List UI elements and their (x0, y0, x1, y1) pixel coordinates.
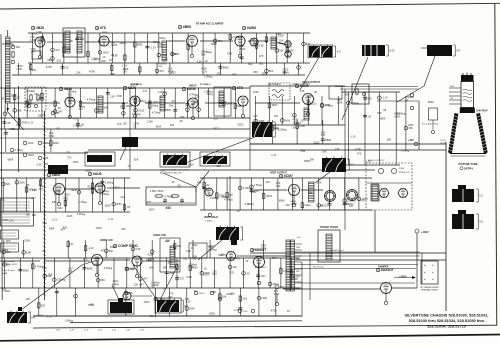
svg-text:47K: 47K (357, 152, 362, 156)
svg-text:3BZ6: 3BZ6 (36, 26, 44, 30)
svg-text:H.V.: H.V. (297, 237, 301, 239)
svg-text:6.8K: 6.8K (227, 52, 233, 56)
svg-text:.001: .001 (87, 184, 93, 188)
svg-text:2.2Meg: 2.2Meg (204, 74, 213, 78)
svg-text:3.3K: 3.3K (192, 255, 198, 259)
svg-text:COMP SYNC: COMP SYNC (118, 244, 139, 248)
svg-text:.05: .05 (56, 127, 60, 131)
svg-text:1Meg: 1Meg (112, 282, 119, 286)
svg-text:270: 270 (79, 107, 84, 111)
svg-text:270: 270 (147, 200, 152, 204)
svg-text:1K: 1K (109, 58, 112, 62)
svg-text:RF TRANSFORMER: RF TRANSFORMER (420, 286, 439, 289)
svg-text:RF ZONE B: RF ZONE B (130, 84, 142, 86)
svg-text:1.5Meg: 1.5Meg (254, 183, 263, 187)
svg-text:470K: 470K (251, 120, 257, 124)
svg-text:+245V: +245V (399, 275, 407, 279)
svg-text:-1.1V: -1.1V (150, 45, 156, 49)
svg-text:.05: .05 (127, 205, 131, 209)
svg-text:680K: 680K (325, 138, 331, 142)
svg-text:680K: 680K (23, 268, 29, 272)
svg-text:1K: 1K (245, 259, 248, 263)
svg-text:BOOST B+: BOOST B+ (313, 266, 325, 268)
svg-text:5-1: 5-1 (479, 194, 483, 198)
svg-text:680K: 680K (53, 141, 59, 145)
svg-text:1K: 1K (2, 198, 5, 202)
svg-text:3.3K: 3.3K (259, 44, 265, 48)
svg-text:100K: 100K (408, 123, 414, 127)
svg-text:6AU8: 6AU8 (300, 84, 309, 88)
svg-text:255V: 255V (209, 311, 215, 315)
svg-text:-1.1V: -1.1V (233, 308, 239, 312)
svg-text:1K: 1K (70, 242, 73, 246)
svg-text:6AU6: 6AU6 (93, 172, 102, 176)
svg-text:560: 560 (62, 167, 67, 171)
svg-text:.05: .05 (405, 99, 409, 103)
svg-text:47K: 47K (42, 266, 47, 270)
svg-text:+40V: +40V (408, 139, 414, 142)
svg-text:4.7Meg: 4.7Meg (324, 104, 333, 108)
svg-text:12K: 12K (76, 71, 81, 75)
svg-text:To A8: To A8 (2, 272, 8, 275)
svg-text:1K: 1K (42, 249, 45, 253)
svg-text:39K: 39K (163, 266, 168, 270)
svg-text:3.3K: 3.3K (197, 60, 203, 64)
svg-text:150V: 150V (93, 262, 99, 266)
svg-text:6BE6: 6BE6 (52, 173, 60, 177)
svg-text:33K: 33K (124, 101, 129, 105)
svg-text:.047: .047 (55, 48, 61, 52)
svg-text:33K: 33K (69, 39, 74, 43)
svg-text:680K: 680K (380, 117, 386, 121)
svg-text:.05: .05 (236, 209, 240, 213)
svg-text:12K: 12K (317, 181, 322, 185)
svg-text:270: 270 (117, 122, 122, 126)
svg-text:3.3K: 3.3K (188, 265, 194, 269)
svg-text:560: 560 (269, 69, 274, 73)
svg-text:.0015: .0015 (66, 214, 73, 218)
svg-text:82K: 82K (161, 169, 166, 173)
svg-text:22K: 22K (168, 260, 173, 264)
svg-text:255V: 255V (144, 300, 150, 304)
svg-text:680K: 680K (129, 267, 135, 271)
svg-text:+: + (432, 270, 434, 274)
svg-text:47K: 47K (159, 69, 164, 73)
svg-text:-1.1V: -1.1V (88, 246, 94, 250)
svg-text:22K: 22K (101, 59, 106, 63)
svg-text:150V: 150V (149, 207, 155, 211)
svg-text:DAMPER: DAMPER (378, 266, 389, 269)
svg-text:100K: 100K (37, 38, 43, 42)
svg-text:5-6: 5-6 (31, 316, 35, 320)
svg-text:1K: 1K (133, 124, 136, 128)
svg-text:82K: 82K (6, 239, 11, 243)
svg-text:+: + (424, 277, 426, 281)
svg-text:120K: 120K (299, 124, 305, 128)
svg-text:.0015: .0015 (152, 100, 159, 104)
svg-text:.05: .05 (177, 184, 181, 188)
svg-text:33K: 33K (322, 150, 327, 154)
svg-text:RF AMP AGC CLAMPER: RF AMP AGC CLAMPER (196, 23, 224, 26)
svg-text:4.7Meg: 4.7Meg (87, 98, 96, 102)
svg-text:IN64: IN64 (285, 118, 291, 122)
svg-text:HORIZ OSC: HORIZ OSC (153, 234, 167, 237)
svg-text:560: 560 (43, 221, 48, 225)
svg-text:33K: 33K (170, 123, 175, 127)
svg-text:10K: 10K (26, 297, 31, 301)
svg-text:120K: 120K (355, 147, 361, 151)
svg-text:255V: 255V (262, 72, 268, 76)
svg-text:6.8K: 6.8K (49, 134, 55, 138)
svg-text:270: 270 (217, 71, 222, 75)
svg-text:5-3: 5-3 (337, 50, 341, 54)
svg-text:255V: 255V (99, 184, 105, 188)
svg-text:.0022: .0022 (237, 123, 244, 127)
svg-text:47K: 47K (72, 117, 77, 121)
svg-text:47K: 47K (259, 54, 264, 58)
svg-text:82K: 82K (109, 249, 114, 253)
svg-text:1Meg: 1Meg (150, 314, 157, 318)
svg-text:150V: 150V (10, 94, 16, 98)
svg-text:150V: 150V (226, 292, 232, 296)
svg-text:1Meg: 1Meg (159, 36, 166, 40)
svg-text:.05: .05 (7, 121, 11, 125)
svg-text:270: 270 (143, 89, 148, 93)
svg-text:3.3K: 3.3K (154, 283, 160, 287)
svg-text:1Meg: 1Meg (11, 127, 18, 131)
svg-text:.001: .001 (311, 101, 317, 105)
svg-text:12K: 12K (266, 180, 271, 184)
svg-text:-1.1V: -1.1V (46, 315, 52, 319)
svg-text:24TP4: 24TP4 (440, 143, 447, 145)
svg-text:47K: 47K (90, 302, 95, 306)
svg-text:-1.1V: -1.1V (121, 64, 127, 68)
svg-text:TO (9): TO (9) (440, 140, 446, 142)
svg-text:270: 270 (123, 70, 128, 74)
svg-text:Focus Adjust Plug: Focus Adjust Plug (422, 123, 438, 126)
svg-text:100K: 100K (343, 202, 349, 206)
svg-text:IN64: IN64 (38, 314, 44, 318)
svg-text:10K: 10K (279, 39, 284, 43)
svg-text:.001: .001 (242, 297, 248, 301)
svg-text:82K: 82K (48, 273, 53, 277)
svg-text:4.7Meg: 4.7Meg (165, 195, 174, 199)
svg-text:-1.1V: -1.1V (365, 159, 371, 163)
svg-text:IN64: IN64 (156, 124, 162, 128)
svg-text:B26.8-9+L SP B: B26.8-9+L SP B (2, 264, 17, 266)
svg-text:IN64: IN64 (57, 206, 63, 210)
svg-text:120K: 120K (253, 90, 259, 94)
svg-text:120K: 120K (36, 30, 42, 34)
svg-text:470K: 470K (271, 309, 277, 313)
svg-text:2ND IF: 2ND IF (189, 85, 197, 88)
svg-text:.0022: .0022 (169, 70, 176, 74)
svg-text:560: 560 (121, 227, 126, 231)
svg-text:4.7Meg: 4.7Meg (218, 100, 227, 104)
svg-text:150V: 150V (278, 34, 284, 38)
svg-text:4.7Meg: 4.7Meg (78, 200, 87, 204)
svg-text:22K: 22K (44, 162, 49, 166)
svg-text:ION TRAP: ION TRAP (477, 110, 488, 113)
svg-text:39K: 39K (387, 138, 392, 142)
svg-text:5-7: 5-7 (184, 304, 188, 308)
svg-text:47K: 47K (360, 198, 365, 202)
svg-text:39K: 39K (180, 115, 185, 119)
svg-text:10K: 10K (292, 126, 297, 130)
svg-text:120K: 120K (147, 120, 153, 124)
svg-text:3.3K: 3.3K (318, 204, 324, 208)
svg-text:680K: 680K (85, 169, 91, 173)
svg-text:270: 270 (66, 150, 71, 154)
svg-text:-1.1V: -1.1V (27, 120, 33, 124)
svg-text:1K: 1K (191, 246, 194, 250)
svg-text:6T8: 6T8 (237, 86, 243, 90)
svg-text:150V: 150V (97, 154, 103, 158)
svg-text:47K: 47K (39, 187, 44, 191)
svg-text:1Meg: 1Meg (2, 248, 9, 252)
svg-text:.05: .05 (383, 108, 387, 112)
svg-text:150V: 150V (102, 31, 108, 35)
svg-text:100K: 100K (227, 102, 233, 106)
svg-text:1.5Meg: 1.5Meg (65, 318, 74, 322)
svg-text:+: + (424, 263, 426, 267)
svg-text:82K: 82K (368, 97, 373, 101)
svg-text:39K: 39K (308, 191, 313, 195)
svg-text:1.5Meg: 1.5Meg (205, 221, 213, 223)
svg-text:.05: .05 (65, 66, 69, 70)
svg-text:.047: .047 (287, 42, 293, 46)
svg-text:120K: 120K (2, 218, 8, 222)
svg-text:12K: 12K (274, 114, 279, 118)
svg-text:TERMINAL BOARD: TERMINAL BOARD (421, 289, 439, 292)
svg-text:.05: .05 (56, 111, 60, 115)
svg-text:2.2Meg: 2.2Meg (210, 196, 219, 200)
svg-text:1.5Meg: 1.5Meg (105, 180, 114, 184)
svg-text:255V: 255V (240, 47, 246, 51)
svg-text:1Meg: 1Meg (304, 203, 311, 207)
svg-text:6.8K: 6.8K (113, 54, 119, 58)
svg-text:3.3K: 3.3K (245, 202, 251, 206)
svg-text:1Meg: 1Meg (119, 41, 126, 45)
svg-text:39K: 39K (310, 158, 315, 162)
svg-text:.047: .047 (252, 247, 258, 251)
svg-text:1Meg: 1Meg (152, 104, 159, 108)
svg-text:2.2Meg: 2.2Meg (278, 128, 287, 132)
svg-text:+140V: +140V (421, 230, 429, 234)
svg-text:VIDEO OUTPUT: VIDEO OUTPUT (302, 81, 320, 84)
svg-text:.0022: .0022 (4, 289, 11, 293)
svg-text:4.7Meg: 4.7Meg (231, 256, 240, 260)
svg-text:470K: 470K (89, 70, 95, 74)
svg-text:1K: 1K (194, 100, 197, 104)
svg-text:33K: 33K (253, 70, 258, 74)
svg-text:+: + (432, 263, 434, 267)
svg-text:.05: .05 (26, 183, 30, 187)
svg-text:39K: 39K (32, 213, 37, 217)
svg-text:INTERLOCK: INTERLOCK (399, 172, 411, 174)
svg-text:VERT OUTPUT: VERT OUTPUT (270, 172, 287, 175)
svg-text:470K: 470K (307, 94, 313, 98)
svg-text:82K: 82K (283, 70, 288, 74)
svg-text:.0022: .0022 (213, 127, 220, 131)
svg-text:560: 560 (101, 278, 106, 282)
svg-text:47K: 47K (197, 181, 202, 185)
svg-text:.047: .047 (31, 196, 37, 200)
svg-text:4.7Meg: 4.7Meg (104, 266, 113, 270)
svg-text:120K: 120K (28, 141, 34, 145)
svg-text:Tuner IF input: Tuner IF input (2, 269, 15, 272)
svg-text:470K: 470K (46, 65, 52, 69)
svg-text:SPKR: SPKR (199, 293, 205, 295)
svg-text:-1.1V: -1.1V (54, 166, 60, 170)
svg-text:560: 560 (248, 62, 253, 66)
svg-text:IF ZONE C: IF ZONE C (200, 84, 211, 86)
svg-text:100K: 100K (73, 160, 79, 164)
svg-text:680K: 680K (279, 199, 285, 203)
svg-text:4.7Meg: 4.7Meg (152, 111, 161, 115)
svg-text:255V: 255V (116, 202, 122, 206)
svg-text:2.2Meg: 2.2Meg (204, 89, 213, 93)
svg-text:IN64: IN64 (218, 253, 224, 257)
svg-text:100K: 100K (38, 114, 44, 118)
svg-text:1K: 1K (102, 55, 105, 59)
svg-text:.0022: .0022 (313, 140, 320, 144)
svg-text:1.5Meg: 1.5Meg (405, 95, 414, 99)
svg-text:6AX4GT: 6AX4GT (381, 268, 394, 272)
svg-text:SILVERTONE CHASSIS 528.51030,: SILVERTONE CHASSIS 528.51030, 528.51031, (405, 312, 489, 317)
svg-text:1.5Meg: 1.5Meg (73, 123, 82, 127)
svg-text:CORE: CORE (157, 66, 163, 68)
svg-text:6.8K: 6.8K (166, 206, 172, 210)
svg-text:39K: 39K (149, 266, 154, 270)
svg-text:150V: 150V (208, 244, 214, 248)
svg-text:3.3K: 3.3K (37, 163, 43, 167)
svg-text:-1.1V: -1.1V (201, 69, 207, 73)
svg-text:39K: 39K (169, 104, 174, 108)
svg-text:150V: 150V (24, 238, 30, 242)
svg-text:39K: 39K (17, 108, 22, 112)
svg-text:.05: .05 (179, 119, 183, 123)
svg-text:.0015: .0015 (102, 50, 109, 54)
svg-text:.0022: .0022 (28, 153, 35, 157)
svg-text:-1.1V: -1.1V (350, 135, 356, 139)
svg-text:270: 270 (83, 257, 88, 261)
svg-text:6.8K: 6.8K (211, 290, 217, 294)
svg-text:680K: 680K (147, 259, 153, 263)
svg-text:1.5Meg: 1.5Meg (138, 99, 147, 103)
svg-text:.05: .05 (0, 96, 4, 100)
svg-text:270: 270 (321, 133, 326, 137)
svg-text:2.2Meg: 2.2Meg (132, 112, 141, 116)
svg-text:82K: 82K (32, 68, 37, 72)
svg-text:47K: 47K (175, 302, 180, 306)
svg-text:39K: 39K (47, 58, 52, 62)
svg-text:1K: 1K (127, 164, 130, 168)
svg-text:.05: .05 (171, 99, 175, 103)
svg-text:528.51030 thru 528.51034, 528.: 528.51030 thru 528.51034, 528.51050 thru (409, 318, 485, 323)
svg-text:10K: 10K (165, 239, 170, 243)
svg-text:255V: 255V (203, 272, 209, 276)
svg-text:.047: .047 (120, 195, 126, 199)
svg-text:528.51054, 528.51710: 528.51054, 528.51710 (427, 323, 466, 328)
svg-text:.05: .05 (34, 92, 38, 96)
svg-text:12K: 12K (233, 265, 238, 269)
svg-text:10K: 10K (26, 212, 31, 216)
svg-text:33K: 33K (177, 244, 182, 248)
svg-text:POWER TRANS: POWER TRANS (320, 226, 338, 229)
svg-text:10K: 10K (335, 147, 340, 151)
svg-text:4.7Meg: 4.7Meg (15, 148, 24, 152)
svg-text:.05: .05 (16, 123, 20, 127)
svg-text:82K: 82K (6, 182, 11, 186)
svg-text:-1.1V: -1.1V (270, 153, 276, 157)
svg-text:1K: 1K (172, 180, 175, 184)
svg-text:5-2: 5-2 (350, 163, 354, 167)
svg-text:680K: 680K (87, 267, 93, 271)
svg-text:.0015: .0015 (95, 226, 102, 230)
svg-text:255V: 255V (105, 204, 111, 208)
svg-text:680K: 680K (8, 158, 14, 162)
svg-text:.0015: .0015 (147, 253, 154, 257)
svg-text:.01: .01 (162, 286, 166, 290)
svg-text:12K: 12K (285, 203, 290, 207)
svg-text:.001: .001 (183, 257, 189, 261)
svg-text:4.5MC TRAP: 4.5MC TRAP (150, 190, 164, 193)
svg-text:680K: 680K (165, 108, 171, 112)
svg-text:FUSE: FUSE (399, 168, 405, 170)
svg-text:82K: 82K (41, 303, 46, 307)
svg-text:120K: 120K (43, 156, 49, 160)
svg-text:33K: 33K (377, 111, 382, 115)
svg-text:10K: 10K (120, 105, 125, 109)
svg-text:82K: 82K (134, 158, 139, 162)
svg-text:680K: 680K (211, 42, 217, 46)
svg-text:GRN: GRN (296, 247, 301, 249)
svg-text:2.2Meg: 2.2Meg (397, 111, 406, 115)
svg-text:22K: 22K (217, 164, 222, 168)
svg-text:120K: 120K (261, 296, 267, 300)
svg-text:12K: 12K (229, 239, 234, 243)
svg-text:VID ZONE D: VID ZONE D (268, 84, 281, 86)
svg-text:560: 560 (68, 92, 73, 96)
svg-text:33K: 33K (52, 200, 57, 204)
svg-text:150V: 150V (114, 186, 120, 190)
svg-text:GRN: GRN (450, 86, 455, 88)
svg-text:10K: 10K (16, 45, 21, 49)
svg-text:150V: 150V (251, 190, 257, 194)
svg-text:YEL: YEL (296, 259, 299, 261)
svg-text:47K: 47K (101, 248, 106, 252)
svg-text:100K: 100K (292, 277, 298, 281)
svg-text:.047: .047 (139, 283, 145, 287)
svg-text:6BE6: 6BE6 (183, 25, 191, 29)
svg-text:12K: 12K (40, 177, 45, 181)
svg-text:6.8K: 6.8K (186, 249, 192, 253)
svg-text:4.7Meg: 4.7Meg (189, 92, 198, 96)
svg-text:470K: 470K (116, 94, 122, 98)
svg-text:150V: 150V (271, 103, 277, 107)
svg-text:24TP4: 24TP4 (464, 167, 473, 171)
svg-text:1K: 1K (194, 289, 197, 293)
svg-text:255V: 255V (19, 180, 25, 184)
svg-text:22K: 22K (134, 283, 139, 287)
svg-text:-1.1V: -1.1V (51, 218, 57, 222)
svg-text:6.8K: 6.8K (26, 250, 32, 254)
svg-text:.01: .01 (251, 38, 255, 42)
svg-text:1K: 1K (205, 59, 208, 63)
svg-text:1K: 1K (130, 244, 133, 248)
svg-text:100K: 100K (71, 188, 77, 192)
